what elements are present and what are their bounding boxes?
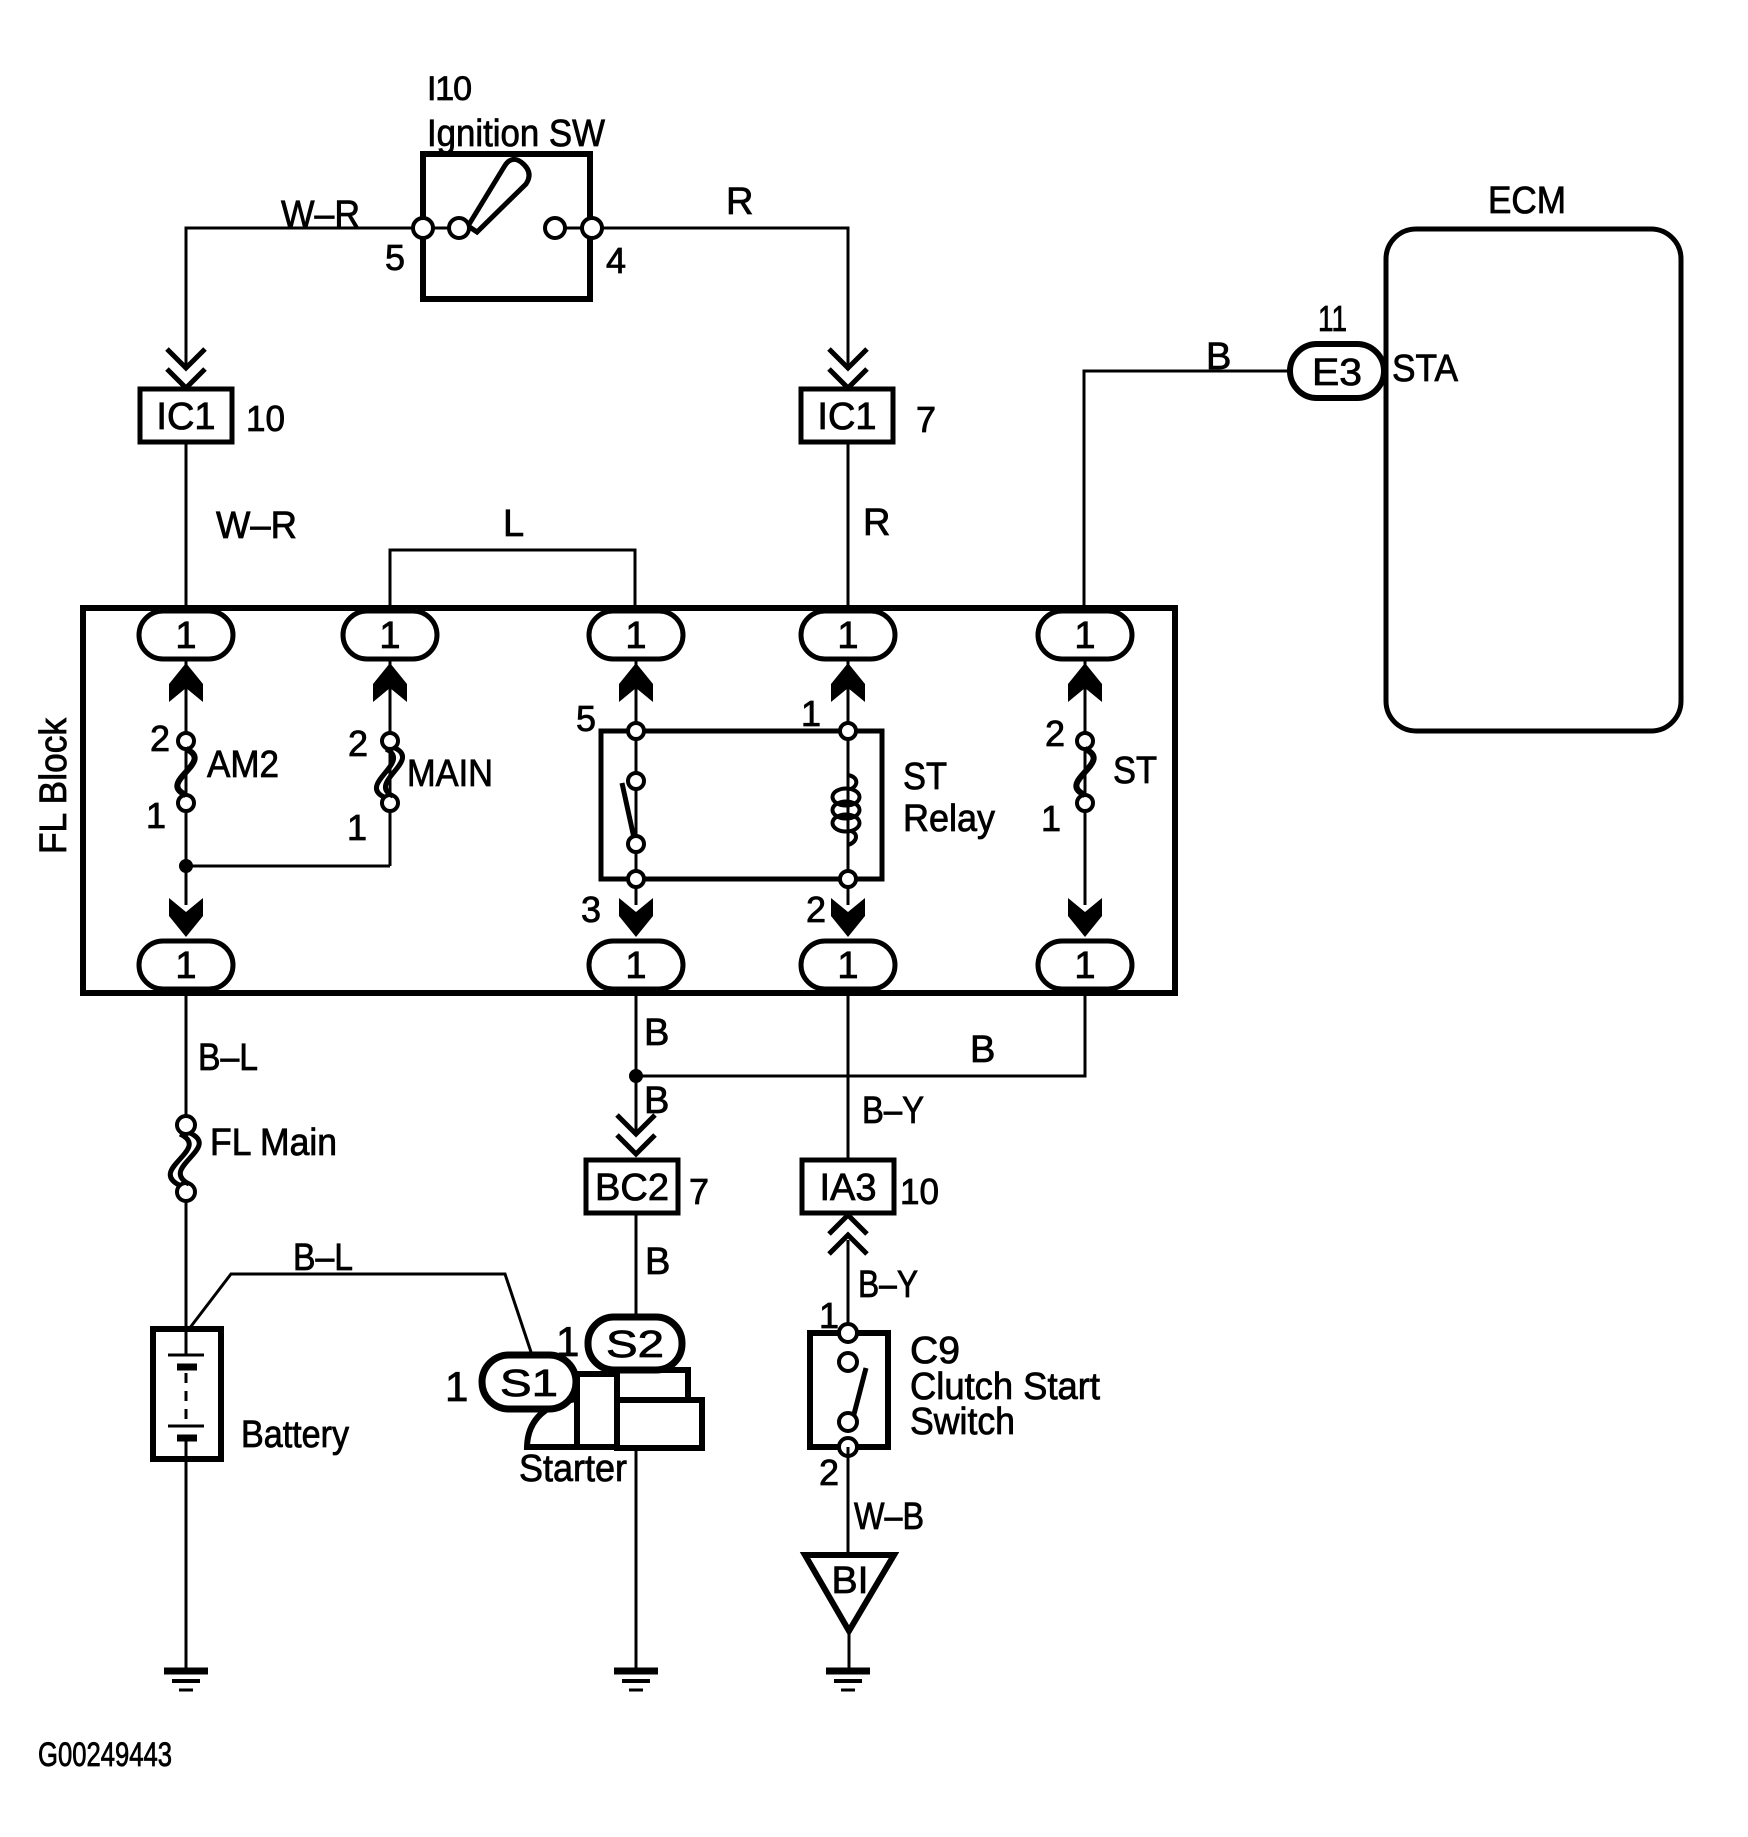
connector arrow into IC1 7 [829,349,867,388]
svg-text:I10: I10 [427,70,472,108]
wire starter to ground [635,1447,638,1671]
svg-text:B: B [644,1012,669,1054]
svg-text:3: 3 [581,889,601,930]
fuse ST [1077,733,1093,749]
svg-text:MAIN: MAIN [407,753,493,795]
solid up arrow col2 [373,663,407,702]
svg-text:IC1: IC1 [156,396,215,438]
wire B horizontal to ST column [636,989,1085,1076]
wire B starter column below block [635,989,638,1133]
connector E3 oval [1290,344,1384,398]
clutch switch lower contact [839,1413,857,1431]
wire MAIN column inside block [389,659,392,866]
battery internal wire top [185,1329,188,1355]
svg-text:STA: STA [1392,348,1459,390]
svg-text:FL Block: FL Block [33,717,75,854]
svg-text:2: 2 [806,889,826,930]
starter solenoid body [577,1374,617,1447]
wire relay coil column inside block [847,659,850,905]
battery dashed center [185,1373,188,1421]
svg-text:R: R [863,502,890,544]
ignition terminal pin 4 [582,218,602,238]
battery box [153,1329,221,1459]
solid up arrow col3 [619,663,653,702]
solid down arrow col3 [619,898,653,937]
battery plate short bottom [177,1435,197,1442]
svg-text:B–Y: B–Y [858,1264,918,1306]
ground starter [614,1671,658,1690]
wire AM2 column inside block [185,659,188,905]
solid up arrow col4 [831,663,865,702]
svg-text:7: 7 [689,1171,709,1212]
battery plate long top [168,1354,204,1357]
svg-text:1: 1 [379,615,400,657]
wire BI to ground [848,1631,851,1671]
wire junction AM2 to MAIN [186,865,390,868]
svg-text:1: 1 [625,945,646,987]
svg-text:1: 1 [175,945,196,987]
svg-text:1: 1 [146,795,166,836]
svg-text:W–R: W–R [281,194,360,236]
svg-text:1: 1 [175,615,196,657]
connector BC2 box [586,1160,678,1213]
svg-text:1: 1 [445,1363,468,1410]
ground battery [164,1671,208,1690]
solid down arrow col4 [831,898,865,937]
connector IA3 box [802,1160,894,1213]
clutch switch upper contact [839,1353,857,1371]
svg-text:E3: E3 [1312,352,1362,394]
solid up arrow col5 [1068,663,1102,702]
clutch switch terminal 2 [839,1438,857,1456]
svg-text:1: 1 [1041,798,1061,839]
svg-text:L: L [503,503,524,545]
svg-text:ECM: ECM [1488,180,1566,222]
wire B-Y clutch column below block [847,989,850,1160]
ignition movable contact [449,218,469,238]
ignition switch blade [468,159,529,232]
ECM box [1386,229,1681,731]
battery plate long bottom [168,1425,204,1428]
battery plate short top [177,1364,197,1371]
svg-text:10: 10 [900,1171,939,1212]
ST relay box [601,731,882,879]
svg-text:Switch: Switch [910,1401,1015,1443]
starter bell housing [527,1398,582,1447]
svg-text:ST: ST [903,756,947,798]
svg-text:Starter: Starter [519,1448,627,1490]
svg-text:5: 5 [385,237,405,278]
svg-text:1: 1 [556,1318,579,1365]
fusible link FL Main [177,1116,195,1134]
svg-text:G00249443: G00249443 [38,1736,172,1774]
svg-text:S2: S2 [606,1324,664,1366]
junction dot starter column [629,1069,643,1083]
connector S1 oval [482,1355,576,1409]
ignition switch I10 box [423,154,590,299]
svg-text:S1: S1 [500,1363,558,1405]
clutch switch terminal 1 [839,1324,857,1342]
svg-text:1: 1 [837,615,858,657]
svg-text:R: R [726,181,753,223]
clutch switch blade [853,1368,866,1418]
ignition terminal pin 5 [423,227,459,230]
relay terminal 5 [628,723,644,739]
svg-text:Relay: Relay [903,798,995,840]
ignition fixed contact [545,218,565,238]
wire B to S2 [635,1213,638,1319]
relay terminal 2 [840,871,856,887]
wire B from E3 to FL block ST column [1084,371,1290,611]
svg-text:B: B [644,1080,669,1122]
battery internal wire bottom [185,1438,188,1459]
wire to battery [185,1201,188,1329]
svg-text:2: 2 [1045,713,1065,754]
svg-text:2: 2 [150,718,170,759]
svg-text:1: 1 [347,807,367,848]
connector arrow into BC2 [617,1115,655,1154]
svg-text:2: 2 [819,1452,839,1493]
connector S2 oval [588,1317,682,1370]
fuse MAIN [382,733,398,749]
top oval 1 col AM2 [139,611,233,659]
wire R from IC1 7 down to FL block [847,442,850,611]
svg-text:7: 7 [916,399,936,440]
top oval 1 col relay coil [801,611,895,659]
svg-text:B–L: B–L [293,1237,353,1279]
FL Block box [83,608,1175,993]
wire R from ignition pin4 right and down to IC1 [592,228,848,368]
top oval 1 col MAIN [343,611,437,659]
svg-text:B: B [1206,336,1231,378]
wire L loop between MAIN and relay column [390,550,635,611]
solid up arrow col1 [169,663,203,702]
wire ST fuse column inside block [1084,659,1087,905]
svg-text:1: 1 [837,945,858,987]
wire W-B to BI [847,1447,850,1555]
svg-text:5: 5 [576,698,596,739]
svg-text:4: 4 [606,240,626,281]
svg-text:2: 2 [348,723,368,764]
wire W-R from IC1 10 down to FL block [185,442,188,611]
relay switch upper contact [628,773,644,789]
top oval 1 col relay switch [589,611,683,659]
bottom oval 1 col3 [589,941,683,989]
svg-text:BC2: BC2 [595,1167,669,1209]
svg-text:AM2: AM2 [207,744,279,786]
bottom oval 1 col4 [801,941,895,989]
svg-text:1: 1 [801,693,821,734]
svg-text:10: 10 [246,398,285,439]
relay terminal 1 [840,723,856,739]
clutch start switch C9 box [810,1333,888,1447]
starter lower right block [617,1400,702,1448]
svg-text:Ignition SW: Ignition SW [427,113,605,155]
svg-text:W–R: W–R [216,505,297,547]
wire battery to ground [185,1459,188,1671]
svg-text:IC1: IC1 [817,396,876,438]
svg-text:ST: ST [1113,750,1157,792]
svg-text:IA3: IA3 [819,1167,876,1209]
relay terminal 3 [628,871,644,887]
wire B-Y to clutch switch [847,1240,850,1333]
svg-text:B: B [645,1241,670,1283]
bottom oval 1 col5 [1038,941,1132,989]
wire B-L battery to S1 [189,1274,533,1358]
starter upper right block [617,1370,688,1400]
connector arrow into IC1 10 [167,349,205,388]
svg-text:11: 11 [1318,298,1347,339]
top oval 1 col ST fuse [1038,611,1132,659]
wire W-R from ignition pin5 left and down to IC1 [186,228,423,368]
connector IC1 left box [140,389,232,442]
svg-text:B–L: B–L [198,1037,258,1079]
svg-text:W–B: W–B [854,1496,924,1538]
svg-text:BI: BI [832,1560,869,1602]
svg-text:FL Main: FL Main [210,1122,337,1164]
bottom oval 1 col1 [139,941,233,989]
ground triangle BI [805,1555,894,1631]
fuse AM2 [178,733,194,749]
svg-text:1: 1 [1074,615,1095,657]
ground BI [826,1671,870,1690]
solid down arrow col5 [1068,898,1102,937]
relay switch blade [622,783,634,838]
svg-text:1: 1 [819,1295,839,1336]
wire B-L battery column [185,989,188,1116]
wire relay switch column inside block [635,659,638,905]
relay coil [833,775,860,845]
junction dot [179,859,193,873]
connector arrow up into IA3 [829,1215,867,1254]
svg-text:1: 1 [1074,945,1095,987]
svg-text:Battery: Battery [241,1414,349,1456]
solid down arrow col1 [169,898,203,937]
svg-text:1: 1 [625,615,646,657]
relay switch lower contact [628,836,644,852]
connector IC1 right box [801,389,893,442]
svg-text:B–Y: B–Y [862,1090,924,1132]
svg-text:B: B [970,1029,995,1071]
